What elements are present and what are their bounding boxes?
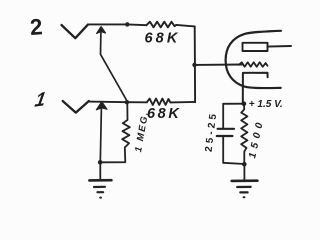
capacitor C1 plate bottom	[217, 135, 233, 137]
resistor R1 68K zigzag	[147, 22, 177, 28]
capacitor C1 25-25 top lead	[222, 104, 224, 128]
junction dot: node B (grid1 wire)	[125, 100, 129, 104]
input jack J2	[62, 25, 88, 38]
resistor R2 68K zigzag	[147, 99, 171, 105]
svg-text:1: 1	[33, 88, 47, 112]
wire: node D to capacitor branch	[223, 103, 244, 105]
arrow: jack J1 frame contact	[96, 102, 107, 110]
svg-text:25-25: 25-25	[204, 110, 220, 152]
wire: plate output	[268, 45, 292, 48]
tube V1 cathode	[243, 73, 268, 104]
svg-text:68K: 68K	[145, 31, 181, 47]
wire: R1 to right bus	[176, 25, 194, 27]
svg-text:1500: 1500	[247, 117, 266, 159]
wire: R2 to right bus	[170, 101, 195, 104]
wire: capacitor bottom to node E	[223, 163, 244, 164]
ground GND2	[243, 164, 245, 180]
arrow: jack J2 frame contact	[97, 27, 106, 34]
resistor R3 1 MEG (vertical)	[101, 102, 130, 162]
svg-text:+ 1.5 V.: + 1.5 V.	[249, 99, 283, 110]
resistor R4 1500 (vertical)	[241, 104, 247, 165]
ground GND1	[99, 162, 101, 179]
wire: jack J1 tip to resistor R2	[89, 101, 147, 104]
capacitor C1 plate top	[218, 128, 234, 130]
wire: right vertical bus	[194, 26, 196, 102]
junction dot: node A (grid2 wire)	[125, 22, 129, 26]
tube V1 envelope	[226, 31, 281, 88]
tube V1 plate	[243, 43, 268, 51]
wire: jack J2 tip to resistor R1	[88, 23, 147, 26]
junction dot: node E (ground)	[242, 162, 247, 167]
tube V1 grid zigzag	[239, 62, 268, 67]
junction dot: ground node C	[98, 160, 103, 165]
junction dot: grid node	[192, 63, 196, 67]
capacitor C1 bottom lead	[222, 137, 224, 163]
svg-text:2: 2	[29, 14, 43, 40]
input jack J1	[63, 101, 89, 113]
svg-text:1 MEG.: 1 MEG.	[133, 110, 151, 153]
svg-text:68K: 68K	[147, 106, 181, 122]
wire: grid node to tube grid	[195, 64, 243, 66]
junction dot: node D (+1.5V)	[242, 101, 247, 106]
